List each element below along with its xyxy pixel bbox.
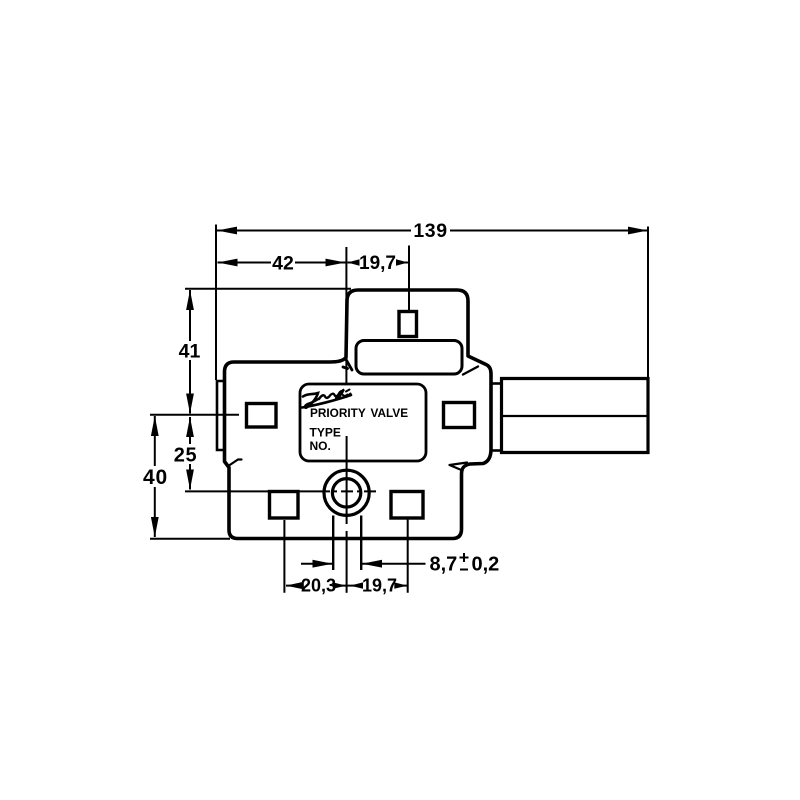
svg-text:0,2: 0,2: [472, 554, 500, 576]
tangent line 8,7 left: [332, 516, 334, 571]
arrow 41 bottom: [186, 394, 194, 414]
bottom right port rectangle: [391, 492, 423, 519]
arrow 139 right: [628, 227, 648, 235]
name plate: [300, 384, 426, 461]
arrow 40 bottom: [151, 517, 159, 537]
svg-text:PRIORITY: PRIORITY: [310, 406, 366, 420]
svg-text:41: 41: [179, 341, 201, 363]
arrow 40 top: [151, 416, 159, 436]
fillet dart top-right of upper block: [463, 367, 478, 375]
arrow 42 right: [326, 259, 346, 267]
dimension line 20,3 and 19,7 bottom: [286, 585, 408, 587]
right shaft middle line: [502, 415, 647, 417]
arrow 41 top: [186, 290, 194, 310]
notch dart left edge: [228, 460, 242, 467]
arrow 19,7 top right: [396, 259, 408, 266]
right shaft neck lower tick: [491, 449, 502, 452]
label 20,3 background: [301, 576, 337, 595]
extension line bottom right port: [407, 520, 409, 593]
dimension line 19,7 top: [348, 262, 409, 264]
left mounting tab: [217, 381, 225, 450]
dimension line 42: [218, 262, 346, 264]
tangent line 8,7 right: [360, 516, 362, 571]
center line horizontal dash-dot part: [318, 490, 377, 492]
dimension line 139: [217, 230, 648, 232]
svg-text:40: 40: [143, 466, 168, 489]
right shaft body: [502, 379, 649, 453]
arrow 19,7 top left: [348, 259, 360, 266]
Danfoss script logo: [302, 390, 351, 408]
label 41: [178, 341, 202, 360]
svg-text:42: 42: [272, 253, 294, 275]
arrow 25 bottom: [186, 470, 194, 490]
extension line top port center: [408, 246, 410, 313]
right port rectangle: [444, 403, 475, 428]
arrow 20,3 right: [333, 582, 346, 588]
svg-text:NO.: NO.: [310, 439, 331, 453]
valve main body outline: [225, 290, 492, 539]
notch dart bottom-right edge: [450, 463, 468, 471]
svg-text:19,7: 19,7: [362, 576, 397, 596]
center line horizontal solid part: [185, 490, 318, 492]
bottom left port rectangle: [270, 492, 299, 519]
svg-text:25: 25: [174, 445, 197, 467]
extension line bottom for 40: [150, 538, 230, 540]
extension line bottom left port: [283, 520, 285, 593]
label 25: [172, 444, 199, 464]
center line vertical through circle: [346, 436, 348, 524]
label 19,7 top background: [358, 253, 398, 271]
dimension line 25: [189, 417, 191, 490]
extension line at 42 boundary: [345, 247, 347, 384]
arrow 8,7 pointing left: [362, 560, 382, 568]
arrow 19,7 bottom left: [350, 582, 363, 588]
extension line mid for 41 40 25: [150, 414, 239, 416]
right shaft neck upper tick: [491, 382, 502, 385]
svg-text:19,7: 19,7: [359, 253, 396, 274]
svg-text:8,7: 8,7: [430, 554, 458, 576]
label 42: [271, 253, 295, 271]
extension line left of 139: [215, 225, 217, 381]
dimension line 8,7 right segment: [362, 563, 426, 565]
left port rectangle: [247, 404, 277, 428]
arrow 20,3 left: [286, 582, 304, 590]
arrow 42 left: [218, 259, 238, 267]
concentric port circles: [324, 470, 369, 515]
svg-text:139: 139: [413, 220, 447, 242]
svg-text:VALVE: VALVE: [371, 406, 409, 420]
dimension line 41: [189, 290, 191, 414]
extension line right of 139: [647, 227, 649, 378]
label 19,7 bottom background: [361, 576, 398, 595]
arrow 19,7 bottom right: [394, 582, 407, 588]
label 139: [411, 221, 450, 239]
arrow 139 left: [217, 227, 237, 235]
arrow 25 top: [186, 417, 194, 437]
top port rectangle: [399, 312, 417, 337]
extension line top for 41: [185, 288, 351, 290]
arrow 8,7 pointing right: [313, 560, 333, 568]
dimension line 8,7 left segment: [301, 563, 333, 565]
dimension line 40: [154, 416, 156, 537]
inner rounded rectangle on upper block: [356, 341, 462, 375]
svg-text:20,3: 20,3: [301, 576, 336, 596]
label 40: [141, 466, 170, 487]
svg-text:TYPE: TYPE: [310, 426, 341, 440]
fillet dart top-left of upper block: [343, 360, 352, 371]
